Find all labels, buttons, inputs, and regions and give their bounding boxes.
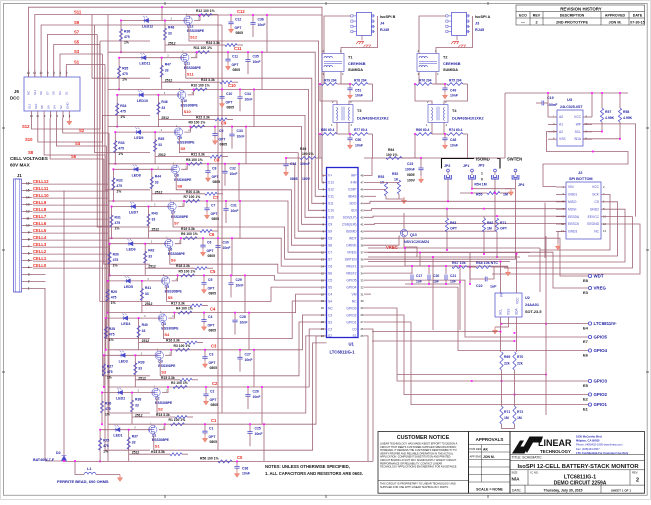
wire [252,15,254,23]
capacitor [442,138,447,140]
LED LED1 [114,428,120,432]
wire [203,321,205,323]
svg-text:IsoSPI B: IsoSPI B [380,15,396,19]
svg-text:46: 46 [361,188,365,192]
wire [221,98,223,100]
transformer T3 [333,105,353,123]
svg-text:OPT: OPT [500,227,508,231]
svg-text:R20 3.3k: R20 3.3k [186,190,200,194]
svg-text:0805: 0805 [211,403,219,407]
resistor R34 [116,103,119,115]
resistor R32 [112,178,115,190]
svg-text:19: 19 [321,299,325,303]
wire net S12 [32,118,101,129]
svg-text:21: 21 [321,313,325,317]
wire [115,131,177,133]
wire J5 pin 7 [49,111,51,118]
svg-text:S4: S4 [328,299,332,303]
svg-text:IBIAS: IBIAS [348,195,357,199]
wire [420,170,422,176]
ground [444,142,446,145]
ground [236,470,238,473]
wire Q drain [165,350,171,356]
resistor [193,88,207,91]
capacitor [202,357,207,359]
resistor [190,304,202,307]
svg-text:R64: R64 [388,148,394,152]
node [263,423,265,425]
svg-text:100 1%: 100 1% [302,152,314,156]
wire net CELL2 [33,253,108,255]
capacitor [228,22,233,24]
wire net C6 rail [108,238,327,266]
wire J1 pin 12 [22,211,33,213]
resistor [416,133,432,136]
wire [63,460,65,461]
wire net S7 [47,35,97,78]
svg-text:0805: 0805 [209,291,217,295]
svg-text:C7: C7 [211,204,215,208]
svg-text:WDT: WDT [349,237,357,241]
svg-text:VREG: VREG [594,286,607,291]
wire [467,134,469,158]
ground [202,249,204,252]
wire [431,122,433,134]
wire [419,16,446,54]
wire [349,134,351,138]
svg-text:35: 35 [361,264,365,268]
svg-text:S4: S4 [53,105,57,109]
svg-text:CELL5: CELL5 [33,228,47,233]
svg-text:OPT: OPT [450,227,458,231]
svg-text:CELL2: CELL2 [33,249,47,254]
svg-text:C12: C12 [237,9,245,14]
node [190,126,192,128]
wire net S2 [157,336,327,413]
wire J1 pin 6 [22,253,33,255]
wire [205,396,207,398]
wire ISOMD [364,193,495,231]
svg-text:JP1: JP1 [463,164,469,168]
resistor [188,162,202,165]
svg-text:475: 475 [118,147,124,151]
wire [502,428,515,430]
svg-text:C4: C4 [210,306,216,311]
svg-text:13: 13 [26,203,30,207]
svg-text:NOTES: UNLESS OTHERWISE SPECIF: NOTES: UNLESS OTHERWISE SPECIFIED, [265,464,350,469]
wire [117,94,180,96]
resistor [175,416,187,419]
svg-text:R1 100 1%: R1 100 1% [169,418,186,422]
node [161,6,163,8]
svg-text:R38: R38 [135,398,141,402]
node [180,237,182,239]
svg-text:E2: E2 [583,396,589,401]
wire net C8 rail [108,164,327,238]
svg-text:37: 37 [361,250,365,254]
wire [217,193,223,195]
svg-text:475: 475 [109,333,115,337]
svg-text:14: 14 [321,264,325,268]
wire [114,132,116,164]
resistor R43 33 [147,214,150,226]
wire [397,374,546,376]
wire [214,127,216,134]
wire [500,262,502,294]
node [230,14,232,16]
node [103,354,105,356]
node [202,237,204,239]
wire net S3 riser [102,54,150,376]
wire [447,180,449,202]
svg-text:1%: 1% [113,264,118,268]
wire [247,387,249,395]
svg-text:LED8: LED8 [132,173,141,177]
capacitor [222,171,227,173]
wire [100,429,152,431]
resistor [476,266,491,269]
svg-text:C49: C49 [450,89,456,93]
node [101,392,103,394]
svg-text:33: 33 [138,366,142,370]
jumper JP3 [494,169,497,172]
wire left bus [107,15,109,461]
node [619,138,621,140]
wire net S4 [56,118,106,146]
wire net S3 [160,322,326,376]
wire [101,393,103,425]
svg-text:25: 25 [361,334,365,338]
wire [187,416,193,418]
svg-text:ECO: ECO [519,14,527,18]
svg-text:R48: R48 [168,26,174,30]
wire [207,173,209,175]
capacitor [201,320,206,322]
wire bus [221,25,223,413]
wire [164,21,166,53]
resistor [185,341,197,344]
svg-text:R28: R28 [109,327,115,331]
node [261,386,263,388]
svg-text:0805: 0805 [210,366,218,370]
title block [510,432,645,494]
resistor [205,192,217,195]
wire [234,322,236,335]
svg-text:22: 22 [321,320,325,324]
LED LED7 [130,205,136,209]
svg-text:475: 475 [107,370,113,374]
wire bus [217,15,219,451]
wire [148,207,150,239]
wire bus [368,252,530,254]
ground [510,189,512,192]
resistor [600,108,603,122]
wire [113,168,174,170]
resistor [300,157,316,160]
wire net C2 rail [108,329,327,387]
wire J5 pin 5 [56,111,58,118]
node [186,163,188,165]
svg-text:33: 33 [132,441,136,445]
transistor Q9 [175,128,180,137]
svg-text:C6: C6 [209,232,215,237]
capacitor [228,283,233,285]
svg-text:SDA: SDA [574,137,582,141]
wire J1 pin 11 [22,218,33,220]
capacitor [485,277,487,282]
wire net S6 riser [104,159,150,264]
wire [161,58,163,90]
svg-text:R18 3.3k: R18 3.3k [176,264,190,268]
svg-text:R17 3.3k: R17 3.3k [171,301,185,305]
svg-text:SUPPLIED FOR USE WITH LINEAR T: SUPPLIED FOR USE WITH LINEAR TECHNOLOGY … [380,486,449,489]
svg-text:E8: E8 [583,278,589,283]
wire net S2 [63,118,109,133]
wire [504,93,506,158]
svg-text:Q12: Q12 [187,25,194,29]
svg-text:C22: C22 [476,284,483,288]
svg-text:LTC Confidential-For Customer: LTC Confidential-For Customer Use Only [576,451,629,455]
svg-text:C50: C50 [355,138,361,142]
svg-text:C36: C36 [258,18,264,22]
node [319,133,321,135]
wire net CELL11 [33,190,108,192]
svg-text:R44: R44 [155,174,161,178]
svg-text:SDA: SDA [515,308,519,315]
svg-text:R67 10k: R67 10k [452,261,466,265]
wire [444,134,446,138]
wire [239,359,241,372]
resistor [495,218,498,232]
wire [404,248,406,266]
wire VREF1 [364,265,508,267]
node [411,283,413,285]
wire [364,157,470,159]
wire [460,192,487,194]
svg-text:DLW43SH101XK2: DLW43SH101XK2 [357,117,389,121]
wire [128,430,130,462]
svg-text:EEGND: EEGND [587,222,599,226]
svg-text:S9: S9 [74,20,80,25]
svg-text:475: 475 [105,407,111,411]
svg-text:16: 16 [321,278,325,282]
svg-text:MOSI: MOSI [568,207,577,211]
capacitor [201,282,206,284]
ground [349,142,351,145]
svg-text:33: 33 [161,106,165,110]
svg-text:C10: C10 [328,209,334,213]
resistor [195,267,207,270]
resistor [397,180,400,194]
svg-text:SPI BOTTOM: SPI BOTTOM [569,177,593,181]
svg-text:22k: 22k [517,362,523,366]
svg-text:5: 5 [28,259,30,263]
revision history table [516,5,645,25]
wire [110,243,168,245]
svg-text:0805: 0805 [236,31,244,35]
resistor [500,406,503,424]
node [249,423,251,425]
wire net S11 [35,15,92,78]
wire net S1 riser [105,65,150,451]
svg-text:20: 20 [321,306,325,310]
svg-text:E5: E5 [583,383,589,388]
svg-text:10nF: 10nF [450,144,458,148]
capacitor [347,138,352,140]
wire net S9 riser [95,25,150,153]
svg-text:GPIO1: GPIO1 [594,402,608,407]
svg-text:16: 16 [26,182,30,186]
wire net S1 [66,65,105,78]
node [196,51,198,53]
wire GPIO4 [364,287,588,350]
capacitor [250,23,255,25]
svg-text:SDI: SDI [351,209,357,213]
wire [548,138,557,140]
svg-text:C31: C31 [231,204,237,208]
svg-text:4.99K: 4.99K [605,116,615,120]
node [105,349,107,351]
wire [495,326,509,328]
wire [95,24,222,26]
LED LED9 [135,130,141,134]
svg-text:S8: S8 [28,150,34,155]
node [239,89,241,91]
wire [583,116,592,118]
svg-text:26: 26 [361,327,365,331]
svg-text:AK: AK [483,448,488,452]
node [120,20,122,22]
svg-text:CELL12: CELL12 [33,179,49,184]
wire [249,424,251,432]
svg-text:S8: S8 [40,105,44,109]
IC U2 24AA01 [495,293,522,317]
wire [230,24,232,26]
svg-text:IHM: IHM [350,181,356,185]
resistor R31 [110,215,113,227]
svg-text:3: 3 [28,273,30,277]
svg-text:C4: C4 [208,315,212,319]
svg-text:10nF: 10nF [223,246,231,250]
wire [372,134,374,158]
resistor [447,83,463,86]
svg-text:E4: E4 [583,325,589,330]
svg-text:WP: WP [576,122,582,126]
wire J1 pin 7 [22,246,33,248]
svg-text:10nF: 10nF [355,144,363,148]
wire to E4 [502,323,589,325]
wire [349,140,351,142]
wire [239,99,241,112]
svg-text:ICMP: ICMP [348,188,357,192]
node [500,331,502,333]
svg-text:SCK: SCK [592,193,600,197]
svg-text:7: 7 [28,245,30,249]
node [444,133,446,135]
node [167,386,169,388]
resistor [352,83,368,86]
svg-text:U3: U3 [567,97,573,102]
wire DRIVE [364,236,399,245]
wire J5 pin 13 [31,111,33,118]
svg-text:24LC025-I/ST: 24LC025-I/ST [560,105,583,109]
wire net C12 rail [186,15,327,182]
svg-text:S12: S12 [190,35,198,40]
svg-text:C27: C27 [245,352,251,356]
svg-text:R15 3.3k: R15 3.3k [161,376,175,380]
wire SPI 43 [364,209,566,211]
LED LED4 [122,316,128,320]
wire [556,186,566,188]
svg-text:C7: C7 [328,251,332,255]
svg-text:OPT: OPT [219,138,227,142]
svg-text:CELL VOLTAGES: CELL VOLTAGES [10,156,48,161]
capacitor [237,97,242,99]
svg-text:GPIO3: GPIO3 [594,379,608,384]
node [174,312,176,314]
wire [419,253,421,267]
transistor Q4 [159,314,164,323]
svg-text:WDT: WDT [594,274,604,279]
wire [261,52,263,89]
ground [349,92,351,95]
resistor [482,218,485,232]
svg-text:475: 475 [111,295,117,299]
svg-text:R19 3.3k: R19 3.3k [181,227,195,231]
resistor [225,44,237,47]
svg-text:33: 33 [145,292,149,296]
node [516,253,518,255]
resistor R30 [108,252,111,264]
node [428,283,430,285]
node [158,94,160,96]
svg-text:28: 28 [361,313,365,317]
svg-text:C32: C32 [230,166,236,170]
ground [207,175,209,178]
svg-text:LTC6811IV-: LTC6811IV- [594,321,618,326]
node [428,265,430,267]
svg-text:S10: S10 [34,103,38,109]
ground [494,327,496,330]
svg-text:—: — [521,20,525,24]
node [227,51,229,53]
customer notice box [378,432,469,494]
svg-text:GND1: GND1 [568,193,577,197]
svg-text:BSS308PE: BSS308PE [165,289,183,293]
svg-text:33: 33 [361,278,365,282]
svg-text:VREF1: VREF1 [346,264,357,268]
wire net C0 [364,329,373,461]
wire [135,379,180,381]
wire [411,281,413,285]
svg-text:DATE: DATE [633,14,643,18]
ground [203,324,205,327]
node [74,460,76,462]
svg-text:C11: C11 [328,195,334,199]
ground [204,435,206,438]
svg-text:475: 475 [115,221,121,225]
resistor [452,266,467,269]
svg-text:40: 40 [361,229,365,233]
node [501,323,503,325]
svg-text:1%: 1% [111,301,116,305]
svg-text:45: 45 [361,195,365,199]
svg-text:BAT46W-7-F: BAT46W-7-F [33,458,55,462]
wire [192,379,198,381]
svg-text:1%: 1% [115,227,120,231]
svg-text:C9: C9 [221,120,227,125]
svg-text:REVISION HISTORY: REVISION HISTORY [560,6,602,11]
